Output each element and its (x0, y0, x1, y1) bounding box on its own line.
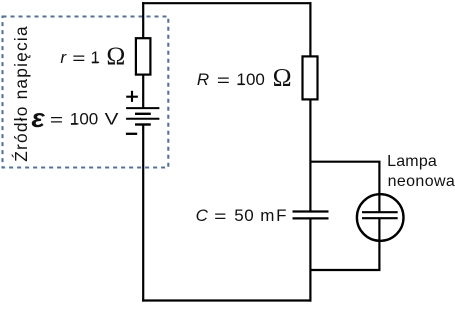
svg-text:ε: ε (31, 104, 45, 133)
svg-text:neonowa: neonowa (388, 173, 455, 190)
svg-text:Źródło napięcia: Źródło napięcia (11, 25, 31, 162)
svg-text:Lampa: Lampa (387, 153, 437, 170)
svg-text:=100V: =100V (50, 110, 119, 130)
